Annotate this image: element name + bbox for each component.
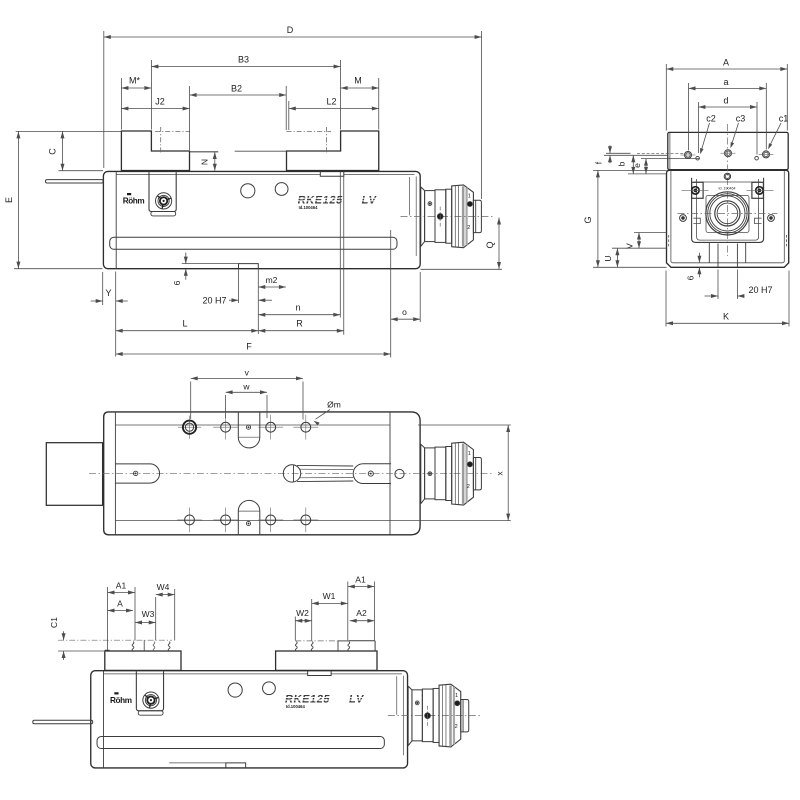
dimension v: [190, 382, 192, 420]
dimension 20H7: [238, 270, 240, 304]
svg-text:A: A: [117, 599, 123, 609]
dimension V: [634, 232, 667, 234]
svg-text:M*: M*: [129, 76, 140, 86]
left jaw screw centerline: [155, 131, 190, 133]
dimension A1 left: [107, 587, 109, 650]
dimension L: [116, 330, 259, 332]
top bolt: [724, 173, 730, 179]
svg-text:n: n: [295, 303, 300, 313]
vertical centerline: [726, 124, 728, 256]
dimension E: [16, 130, 121, 132]
end plate line: [114, 412, 116, 535]
hole c3 target: [725, 150, 732, 157]
svg-text:K: K: [723, 312, 729, 322]
insert top centerline right: [295, 640, 338, 642]
svg-text:A: A: [723, 58, 729, 68]
svg-text:m2: m2: [266, 275, 278, 285]
svg-text:Id. 190464: Id. 190464: [719, 186, 736, 190]
svg-text:L2: L2: [326, 97, 336, 107]
dimension m2: [258, 286, 286, 288]
left rail hidden line: [668, 235, 670, 247]
protruding spindle rod: [46, 180, 104, 183]
side screws: [680, 215, 687, 222]
svg-text:W2: W2: [296, 608, 309, 618]
svg-text:A1: A1: [355, 575, 366, 585]
nut pin: [368, 471, 373, 476]
svg-text:v: v: [245, 367, 250, 377]
svg-text:U: U: [603, 255, 613, 261]
svg-text:Y: Y: [105, 288, 111, 298]
dimension U: [612, 247, 667, 249]
svg-text:20 H7: 20 H7: [748, 285, 772, 295]
front block hole: [395, 469, 404, 478]
bottom hole row: [177, 519, 202, 521]
center slide top line b: [235, 150, 287, 152]
carriage top band: [694, 181, 762, 183]
svg-text:c2: c2: [706, 114, 716, 124]
dimension G: [593, 169, 667, 171]
dimension A: [108, 610, 134, 612]
dimension Y: [102, 272, 104, 305]
right insert top: [349, 640, 375, 642]
svg-text:e: e: [632, 163, 642, 168]
svg-text:w: w: [242, 381, 250, 391]
dimension a: [688, 83, 690, 151]
end view body: [667, 170, 789, 267]
svg-text:J2: J2: [155, 97, 165, 107]
lower guide slot: [708, 242, 710, 262]
c1 centerline: [759, 153, 774, 155]
right jaw plate (bottom view): [276, 651, 377, 670]
svg-text:D: D: [287, 25, 294, 35]
svg-text:A2: A2: [356, 608, 367, 618]
svg-text:C: C: [48, 148, 58, 155]
dimension W4: [174, 589, 176, 641]
spindle nut boss: [706, 195, 749, 232]
dimension C1: [58, 650, 105, 652]
dimension B2: [189, 86, 191, 150]
front block line: [389, 412, 391, 535]
top jaw plate: [668, 132, 788, 169]
dimension D: [103, 31, 105, 168]
svg-text:b: b: [617, 161, 627, 166]
dimension M: [378, 78, 380, 130]
carriage outline: [692, 178, 764, 243]
dimension J2: [121, 108, 189, 110]
right bearing block: [752, 182, 764, 198]
spindle bore rings: [706, 192, 749, 235]
svg-text:Q: Q: [485, 241, 495, 248]
right jaw screw centerline: [287, 131, 332, 133]
svg-text:M: M: [354, 76, 362, 86]
dimension n: [339, 172, 341, 318]
svg-text:B3: B3: [238, 54, 249, 64]
svg-text:20 H7: 20 H7: [202, 295, 226, 305]
left jaw block: [121, 131, 189, 171]
svg-text:6: 6: [172, 280, 182, 285]
dimension R: [343, 175, 345, 335]
svg-text:N: N: [200, 159, 210, 165]
dimension A2: [350, 620, 375, 622]
right jaw block: [287, 131, 379, 171]
dimension L2: [288, 101, 290, 130]
svg-text:6: 6: [686, 275, 696, 280]
jaw hole reference lines: [606, 152, 631, 154]
dimension A: [665, 64, 667, 131]
hole c2 target: [685, 152, 692, 159]
dimension M*: [120, 78, 122, 130]
svg-text:W4: W4: [157, 582, 170, 592]
top hole row: [178, 426, 201, 428]
dimension b: [632, 155, 634, 174]
svg-text:A1: A1: [116, 581, 127, 591]
centerline: [89, 473, 494, 475]
body inner wall line: [671, 171, 784, 263]
dimension F: [390, 230, 392, 358]
spindle nut capsule: [353, 464, 391, 484]
dimension K: [665, 271, 667, 327]
top rail edge: [115, 424, 390, 426]
dimension W3: [155, 597, 157, 641]
hole c1 target: [763, 151, 770, 158]
dimension e: [645, 159, 647, 174]
left bearing block: [692, 182, 704, 198]
svg-text:c1: c1: [779, 114, 789, 124]
dimension o: [419, 272, 421, 322]
svg-text:W3: W3: [142, 609, 155, 619]
dimension C: [59, 170, 104, 172]
svg-text:o: o: [402, 307, 407, 317]
svg-text:R: R: [296, 319, 303, 329]
svg-text:L: L: [182, 319, 187, 329]
insert top centerline: [58, 639, 172, 641]
dimension W1: [347, 582, 349, 641]
small hole right: [755, 156, 759, 160]
dimension A1 right: [373, 582, 375, 641]
screw end circle: [283, 465, 300, 482]
c2 centerline: [681, 154, 696, 156]
dimension x: [418, 424, 511, 426]
dimension w: [225, 395, 227, 418]
dimension 6 (slot depth): [185, 253, 187, 264]
top center slot: [238, 412, 259, 448]
left jaw plate (bottom view): [105, 651, 181, 670]
dimension W2: [294, 617, 296, 641]
svg-text:W1: W1: [323, 591, 336, 601]
svg-text:E: E: [4, 197, 14, 203]
dimension 6 (view2): [698, 253, 700, 263]
dimension 20H7 (view2): [717, 270, 719, 300]
svg-text:F: F: [246, 342, 252, 352]
thread crest top: [297, 464, 353, 467]
svg-text:a: a: [723, 77, 728, 87]
svg-text:c3: c3: [736, 114, 746, 124]
bottom rail edge: [115, 520, 390, 522]
left mount block: [46, 443, 102, 506]
dimension B3: [150, 60, 152, 130]
dimension f: [609, 145, 611, 153]
svg-text:Øm: Øm: [327, 400, 341, 410]
svg-text:G: G: [583, 216, 593, 223]
c3 centerline: [721, 152, 736, 154]
bottom key slot: [717, 244, 719, 268]
small hole left: [696, 156, 700, 160]
plan body outline: [104, 412, 420, 535]
right rail hidden line: [786, 235, 788, 247]
svg-text:d: d: [723, 96, 728, 106]
svg-text:B2: B2: [231, 84, 242, 94]
thread root bottom: [300, 476, 354, 478]
bore centerline: [678, 212, 778, 214]
thread root top: [300, 468, 354, 470]
bottom center slot: [238, 500, 259, 534]
dimension N: [190, 151, 219, 153]
center slide top line a: [190, 151, 218, 153]
dimension Q: [421, 268, 503, 270]
thread crest bottom: [297, 480, 353, 483]
carriage side notches: [693, 218, 700, 223]
left slide tongue: [115, 464, 159, 483]
protruding spindle rod (bottom view): [33, 720, 93, 724]
svg-text:C1: C1: [49, 617, 59, 628]
insert edge tick: [143, 640, 145, 651]
svg-text:x: x: [494, 471, 504, 476]
dimension d: [697, 102, 699, 153]
